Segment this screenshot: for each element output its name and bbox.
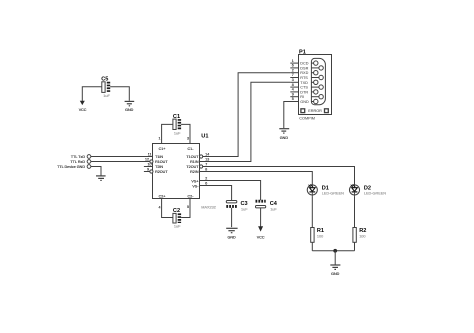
svg-text:R2: R2 <box>359 228 366 234</box>
wire C1 to U1 pin3 <box>181 124 190 143</box>
pin stub P1 RI <box>290 96 298 98</box>
junction <box>333 249 337 253</box>
wire U1 R2IN to D1 <box>200 172 313 185</box>
svg-text:1: 1 <box>159 136 161 140</box>
svg-text:LED-GREEN: LED-GREEN <box>322 192 344 196</box>
svg-text:ERROR: ERROR <box>308 109 322 113</box>
LED D2 <box>349 184 386 196</box>
wire TTL TxD to U1 T1IN <box>91 156 153 158</box>
svg-text:RTS: RTS <box>300 76 308 80</box>
wire TTL RxD to U1 R1OUT <box>91 161 150 163</box>
svg-text:R1OUT: R1OUT <box>155 160 168 164</box>
capacitor C1 <box>173 114 181 135</box>
wire U1 VS+ to C4 <box>200 181 261 201</box>
svg-text:VCC: VCC <box>79 108 87 112</box>
svg-text:12: 12 <box>145 158 149 162</box>
pin stub T2IN <box>144 166 153 168</box>
pin stub R2OUT <box>144 171 150 173</box>
svg-text:7: 7 <box>292 73 294 77</box>
svg-text:C1-: C1- <box>188 147 195 151</box>
svg-text:GND: GND <box>125 108 134 112</box>
wire C5 right to ground <box>110 87 129 101</box>
svg-text:3: 3 <box>187 136 189 140</box>
pin stub P1 CTS <box>290 86 298 88</box>
svg-text:D2: D2 <box>364 185 371 191</box>
pin stub P1 DSR <box>290 67 298 69</box>
svg-text:1: 1 <box>292 59 294 63</box>
svg-text:T1IN: T1IN <box>155 155 163 159</box>
svg-text:100: 100 <box>359 235 365 239</box>
svg-text:1uF: 1uF <box>103 94 110 98</box>
svg-text:TTL RxD: TTL RxD <box>70 160 85 164</box>
svg-text:R2OUT: R2OUT <box>155 170 168 174</box>
ground (P1) <box>279 129 289 140</box>
svg-text:5: 5 <box>292 97 294 101</box>
connector pin TTL TxD <box>71 155 91 160</box>
svg-text:R2IN: R2IN <box>190 170 199 174</box>
svg-text:COMPIM: COMPIM <box>299 117 315 121</box>
svg-text:RI: RI <box>300 95 304 99</box>
svg-text:DSR: DSR <box>300 66 308 70</box>
svg-text:GND: GND <box>300 100 309 104</box>
svg-text:C2-: C2- <box>188 195 195 199</box>
resistor R1 <box>311 228 324 243</box>
svg-text:1uF: 1uF <box>270 207 277 211</box>
wire C2 to U1 pin5 <box>181 199 190 218</box>
connector pin TTL Device GND <box>57 165 91 170</box>
svg-text:5: 5 <box>187 205 189 209</box>
pin stub P1 TXD <box>290 81 298 83</box>
svg-text:C2+: C2+ <box>159 195 166 199</box>
power VCC (left) <box>79 101 87 112</box>
wire D2 to R2 <box>354 196 356 227</box>
svg-text:C4: C4 <box>270 201 278 207</box>
wire U1 R1IN to P1 TXD <box>200 82 291 161</box>
svg-text:2: 2 <box>292 68 294 72</box>
svg-text:11: 11 <box>148 153 152 157</box>
LED D1 <box>307 184 344 196</box>
svg-text:GND: GND <box>280 136 289 140</box>
svg-text:6: 6 <box>292 64 294 68</box>
svg-text:VS+: VS+ <box>191 179 198 183</box>
connector P1 COMPIM <box>299 49 332 114</box>
wire TTL Device GND to ground <box>91 167 101 176</box>
wire D1 to R1 <box>311 196 313 227</box>
capacitor C2 <box>173 208 181 228</box>
inversion bubble T2OUT <box>200 165 203 168</box>
pin stub P1 DCD <box>290 62 298 64</box>
pin stub P1 RXD <box>290 72 298 74</box>
wire P1 GND to ground <box>284 102 299 129</box>
wire U1 T2OUT to D2 <box>203 167 355 185</box>
wire C5 left to VCC <box>82 87 102 101</box>
svg-text:TXD: TXD <box>300 81 308 85</box>
svg-text:TTL TxD: TTL TxD <box>71 155 85 159</box>
capacitor C5 <box>101 77 110 98</box>
svg-text:R1: R1 <box>317 228 324 234</box>
svg-text:TTL Device GND: TTL Device GND <box>57 165 85 169</box>
svg-text:DCD: DCD <box>300 62 308 66</box>
inversion bubble R1OUT <box>150 160 153 163</box>
svg-text:T2OUT: T2OUT <box>186 165 199 169</box>
wire R1 down <box>311 242 313 251</box>
svg-text:R1IN: R1IN <box>190 160 199 164</box>
svg-text:GND: GND <box>227 235 236 239</box>
svg-text:C1+: C1+ <box>159 147 166 151</box>
power VCC (C4) <box>257 226 265 239</box>
svg-text:3: 3 <box>292 78 294 82</box>
svg-text:D1: D1 <box>322 185 329 191</box>
capacitor C4 <box>256 201 278 212</box>
ground (C3) <box>226 228 237 239</box>
svg-text:T2IN: T2IN <box>155 165 163 169</box>
svg-text:RXD: RXD <box>300 71 308 75</box>
pin stub P1 RTS <box>290 77 298 79</box>
svg-text:1uF: 1uF <box>241 207 248 211</box>
wire U1 T1OUT to P1 RXD <box>203 73 291 157</box>
svg-text:U1: U1 <box>201 133 208 139</box>
svg-text:1uF: 1uF <box>174 224 181 228</box>
svg-text:4: 4 <box>159 206 161 210</box>
wire U1 VS- to C3 <box>200 186 232 201</box>
P1 D-sub face <box>311 58 325 104</box>
connector pin TTL RxD <box>70 160 90 165</box>
wire C3 to ground <box>231 208 233 227</box>
svg-text:VS-: VS- <box>192 184 199 188</box>
svg-text:LED-GREEN: LED-GREEN <box>364 192 386 196</box>
svg-text:1uF: 1uF <box>174 131 181 135</box>
wire U1 pin4 to C2 <box>162 199 173 218</box>
inversion bubble R2OUT <box>150 170 153 173</box>
svg-text:MAX232: MAX232 <box>201 205 216 209</box>
svg-text:8: 8 <box>292 83 294 87</box>
wire C4 to VCC <box>260 208 262 226</box>
svg-text:DTR: DTR <box>300 90 308 94</box>
svg-text:GND: GND <box>331 272 340 276</box>
svg-text:100: 100 <box>317 235 323 239</box>
svg-text:C3: C3 <box>241 201 248 207</box>
ground (bottom) <box>330 265 340 276</box>
resistor R2 <box>353 228 366 243</box>
ground (C5) <box>125 101 135 112</box>
op-amp U1 MAX232 body <box>153 133 216 209</box>
P1 error indicator left <box>301 109 305 113</box>
wire U1 pin1 to C1 <box>162 124 173 143</box>
svg-text:VCC: VCC <box>257 236 265 240</box>
svg-text:9: 9 <box>292 92 294 96</box>
wire junction to ground <box>334 251 336 265</box>
wire R2 down <box>354 242 356 251</box>
svg-text:T1OUT: T1OUT <box>186 155 199 159</box>
P1 error indicator right <box>325 109 329 113</box>
wire bottom bus <box>312 250 354 252</box>
inversion bubble T1OUT <box>200 155 203 158</box>
svg-text:4: 4 <box>292 88 294 92</box>
ground (TTL) <box>96 176 106 181</box>
svg-text:CTS: CTS <box>300 86 308 90</box>
pin stub P1 DTR <box>290 91 298 93</box>
capacitor C3 <box>226 201 248 212</box>
